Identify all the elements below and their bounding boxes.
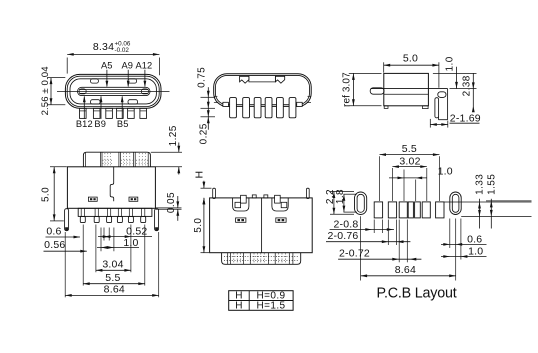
dim 5.0 line (side) [384, 64, 439, 66]
pcb smt pad 7 [436, 202, 444, 218]
plan right leg [155, 209, 159, 231]
plan latch window left [88, 197, 97, 201]
tongue contact line upper [79, 89, 149, 91]
dim 5.0 extension lines (side) [383, 62, 385, 72]
dim 2-1.69 line [430, 124, 448, 126]
dim 8.64 line (plan) [65, 294, 159, 296]
dim 2-0.8 extension lines [373, 220, 375, 234]
dim 3.02 line [392, 166, 426, 168]
svg-text:2.38: 2.38 [462, 75, 473, 96]
pcb ext line ovals top right [486, 200, 532, 202]
rear pin slot 5 [277, 98, 284, 118]
dim 0.6 leader (plan) [46, 236, 81, 238]
svg-text:2.56 ± 0.04: 2.56 ± 0.04 [40, 66, 51, 116]
plan center seam [110, 167, 114, 202]
svg-text:1.33: 1.33 [475, 174, 486, 195]
rear latch hook right [275, 76, 284, 83]
dim 8.34 line [67, 53, 159, 55]
dim 1.33 line [479, 199, 481, 229]
pcb smt pad 3 [399, 202, 407, 218]
front pin 1 [80, 108, 87, 118]
svg-text:2-0.72: 2-0.72 [339, 247, 370, 259]
front pin 2 [93, 108, 100, 118]
dim 0.6 line (pcb) [441, 243, 487, 245]
rear bottom notch left [223, 102, 229, 106]
pcb ext line pads top right [444, 201, 532, 203]
front pin 6 [140, 108, 147, 118]
svg-text:ref 3.07: ref 3.07 [341, 72, 352, 107]
dim 0.25 arrows [207, 110, 210, 117]
H table [229, 291, 293, 311]
front view centerline [57, 90, 170, 92]
svg-text:0.6: 0.6 [467, 233, 482, 245]
svg-text:0.56: 0.56 [44, 239, 65, 251]
dim 5.0 extension line (bottom) [201, 252, 210, 254]
side body foot right [423, 106, 429, 109]
rear shell right ticks [308, 95, 312, 97]
dim 1.8 extension lines [344, 193, 357, 195]
dim ref 3.07 line [352, 73, 354, 105]
plan flange [78, 208, 152, 216]
dim 2-1.69 extension lines [429, 119, 431, 128]
plan pin foot 2 [94, 216, 99, 222]
front view cavity [70, 79, 156, 104]
dim 1.0 extension lines (plan) [100, 228, 102, 252]
rear view shell inner [215, 75, 309, 104]
plan pin foot 5 [128, 216, 133, 222]
latch dimple top-right [128, 79, 137, 83]
rear bottom notch right [297, 102, 303, 106]
svg-text:2-0.8: 2-0.8 [334, 218, 359, 230]
side bracket right edge [447, 89, 449, 120]
dim 2-0.72 extension lines [398, 220, 400, 263]
svg-text:H: H [193, 171, 205, 179]
pcb smt pad 4 [408, 202, 413, 218]
bottom post left [213, 188, 216, 198]
dim 0.05 line [177, 196, 179, 208]
leader A5 [106, 70, 108, 87]
svg-text:5.0: 5.0 [40, 187, 51, 202]
rear shell left ticks [214, 95, 218, 97]
svg-text:2-1.69: 2-1.69 [450, 112, 481, 124]
svg-text:1.8: 1.8 [335, 189, 346, 204]
dim 0.52 extension lines [103, 228, 105, 241]
plan pin shank 5 [128, 208, 130, 216]
dim 1.0 line (plan) [97, 247, 139, 249]
plan cap hatch dots [104, 153, 106, 166]
plan pin shank 3 [107, 208, 109, 216]
dim 8.64 line (pcb) [361, 275, 456, 277]
leader B9 [100, 96, 102, 119]
plan body outline [67, 167, 155, 209]
side bracket slot [438, 92, 446, 98]
front pin 3 [106, 108, 113, 118]
rear center tray [249, 76, 276, 82]
dim 2-0.72 line [338, 258, 421, 260]
plan pin shank 1 [80, 208, 82, 216]
svg-text:1.55: 1.55 [486, 174, 497, 195]
svg-text:2-0.76: 2-0.76 [328, 230, 359, 242]
dim 5.0 extension lines (plan) [50, 166, 67, 168]
dim 2-0.76 extension lines [387, 220, 389, 246]
bottom window right [276, 218, 286, 222]
dim 1.25 extension lines [151, 151, 182, 153]
dim H line [203, 181, 205, 188]
side view shelf line [371, 88, 448, 90]
latch dimple bottom-right [128, 100, 138, 104]
dim 3.04 line [96, 269, 131, 271]
svg-text:5.5: 5.5 [402, 143, 417, 155]
pcb pad oval left outer [355, 192, 367, 215]
svg-text:5.0: 5.0 [193, 218, 204, 233]
dim 1.0 line (pcb) [389, 177, 427, 179]
ext line body top right [433, 72, 477, 74]
dim H extension line [201, 187, 212, 189]
dim 0.56 leader [44, 250, 87, 252]
dim 5.5 extension lines (pcb) [379, 156, 381, 201]
rear pin slot 6 [289, 98, 296, 118]
latch dimple top-left [91, 79, 99, 83]
svg-text:B5: B5 [117, 119, 129, 129]
svg-text:0.75: 0.75 [196, 67, 207, 88]
dim 2-0.76 line [326, 241, 410, 243]
dim 5.5 line (plan) [83, 283, 145, 285]
svg-text:B12: B12 [76, 119, 93, 129]
side body foot left [384, 106, 388, 109]
dim 0.75 extension lines [201, 96, 216, 98]
plan pin foot 3 [107, 216, 112, 222]
dim 8.34 extension lines [66, 58, 68, 74]
bottom flange [222, 253, 301, 265]
side view inner line [384, 93, 429, 95]
bottom flange verticals [227, 253, 229, 264]
svg-text:H=1.5: H=1.5 [257, 300, 286, 311]
svg-text:5.5: 5.5 [105, 272, 120, 284]
svg-text:A5: A5 [101, 61, 113, 71]
plan cap inner verticals [85, 153, 87, 167]
rear pin slot 2 [243, 98, 250, 118]
dim 1.0 extension lines (pcb) [403, 170, 405, 202]
svg-text:0.05: 0.05 [166, 192, 177, 213]
svg-text:8.34: 8.34 [93, 41, 114, 53]
dim 5.0 line (plan) [53, 167, 55, 221]
plan pin shank 4 [117, 208, 119, 216]
dim 2.2 extension lines [330, 191, 354, 193]
pcb pad oval right inner [452, 194, 459, 212]
leader B12 [83, 96, 85, 119]
bottom window left [236, 218, 246, 222]
leader A12 [144, 70, 146, 87]
leader A9 [127, 70, 129, 87]
rear pin slot 4 [265, 98, 272, 118]
plan latch window right [129, 197, 138, 201]
latch dimple bottom-left [91, 100, 101, 104]
pcb smt pad 2 [388, 202, 396, 218]
bottom latch pocket left [233, 198, 249, 211]
leader B5 [121, 96, 123, 119]
dim 2.56 extension lines [47, 77, 65, 79]
dim 0.05 extension lines [156, 207, 182, 209]
tongue tip right [141, 89, 148, 94]
dim 2-0.8 line [330, 229, 394, 231]
pcb ext line pads bottom right [461, 215, 531, 217]
bottom post right [307, 188, 310, 198]
side through-hole leg [435, 98, 439, 118]
svg-text:3.02: 3.02 [399, 155, 420, 167]
dim 1.25 line [178, 143, 180, 153]
bottom tooth 2 [264, 195, 268, 198]
dim 0.75 line [207, 87, 209, 130]
plan pin foot 4 [117, 216, 122, 222]
plan pin shank 6 [141, 208, 143, 216]
svg-text:3.04: 3.04 [102, 259, 123, 271]
dim 0.6 extension line (pcb) [449, 219, 451, 249]
dim 1.8 line [343, 194, 345, 212]
dim 3.04 extension lines [95, 225, 97, 273]
svg-text:A12: A12 [135, 61, 152, 71]
dim 1.0 extension line (pcb right) [460, 219, 462, 260]
rear view shell outer [214, 74, 312, 107]
side view tongue [370, 88, 384, 94]
svg-text:H: H [235, 300, 243, 311]
plan pin foot 1 [80, 216, 85, 222]
svg-text:5.0: 5.0 [403, 53, 418, 65]
pcb smt pad 6 [422, 202, 430, 218]
dim 1.0 line (pcb right) [441, 256, 487, 258]
svg-text:B9: B9 [94, 119, 106, 129]
dim 8.64 extension lines (pcb) [360, 216, 362, 280]
pcb smt pad 5 [415, 202, 421, 218]
dim 8.64 extension lines (plan) [64, 232, 66, 297]
svg-text:0.25: 0.25 [198, 123, 209, 144]
bottom tooth 1 [252, 195, 256, 198]
svg-text:1.0: 1.0 [468, 245, 483, 257]
plan pin shank 2 [94, 208, 96, 216]
bottom latch pocket right [272, 198, 288, 211]
dim 1.55 line [490, 199, 492, 229]
dim 5.5 line (pcb) [380, 154, 440, 156]
svg-text:8.64: 8.64 [395, 264, 416, 276]
front pin 5 [128, 108, 135, 118]
svg-text:P.C.B Layout: P.C.B Layout [377, 286, 457, 302]
svg-text:1.25: 1.25 [168, 125, 179, 146]
dim 5.5 extension lines (plan) [82, 225, 84, 286]
front view shell outer [65, 74, 161, 108]
svg-text:1.0: 1.0 [444, 56, 455, 71]
svg-text:1.0: 1.0 [438, 165, 453, 177]
dim 1.0 line (side) [456, 67, 458, 89]
plan pin foot 6 [141, 216, 146, 222]
bottom flange hatch [233, 253, 235, 263]
dim 2.2 line [333, 192, 335, 215]
front view tongue [78, 87, 151, 95]
pcb pad oval right outer [450, 192, 461, 215]
rear pin slot 3 [254, 98, 261, 118]
pcb pad oval left inner [357, 194, 364, 212]
dim 0.52 line [98, 236, 152, 238]
svg-text:0.52: 0.52 [126, 225, 147, 237]
dim 3.02 extension lines [391, 168, 393, 201]
bottom center seam [261, 198, 263, 253]
bottom view body [210, 198, 313, 253]
svg-text:8.64: 8.64 [104, 284, 125, 296]
tongue tip left [79, 89, 86, 94]
plan left leg [65, 209, 69, 231]
front view shell inner [67, 76, 159, 106]
svg-text:0.6: 0.6 [46, 225, 61, 237]
side bracket foot edge [438, 106, 440, 120]
ext line bracket top right [450, 88, 477, 90]
side view body [384, 73, 429, 105]
dim 2-1.69 underline [450, 122, 480, 124]
dim 2.38 line [472, 73, 474, 111]
pcb smt pad 1 [374, 202, 382, 218]
rear pin slot 1 [230, 98, 237, 118]
dim ref 3.07 extension lines [349, 72, 382, 74]
front pin 4 [117, 108, 124, 118]
tongue contact line lower [79, 92, 149, 94]
dim 5.0 line (bottom) [203, 198, 205, 253]
plan cap outline [83, 152, 150, 167]
svg-text:A9: A9 [122, 61, 134, 71]
side bracket bottom [439, 119, 448, 121]
dim 2.56 line [50, 78, 52, 105]
svg-text:-0.02: -0.02 [115, 47, 130, 54]
rear latch hook left [240, 76, 249, 83]
